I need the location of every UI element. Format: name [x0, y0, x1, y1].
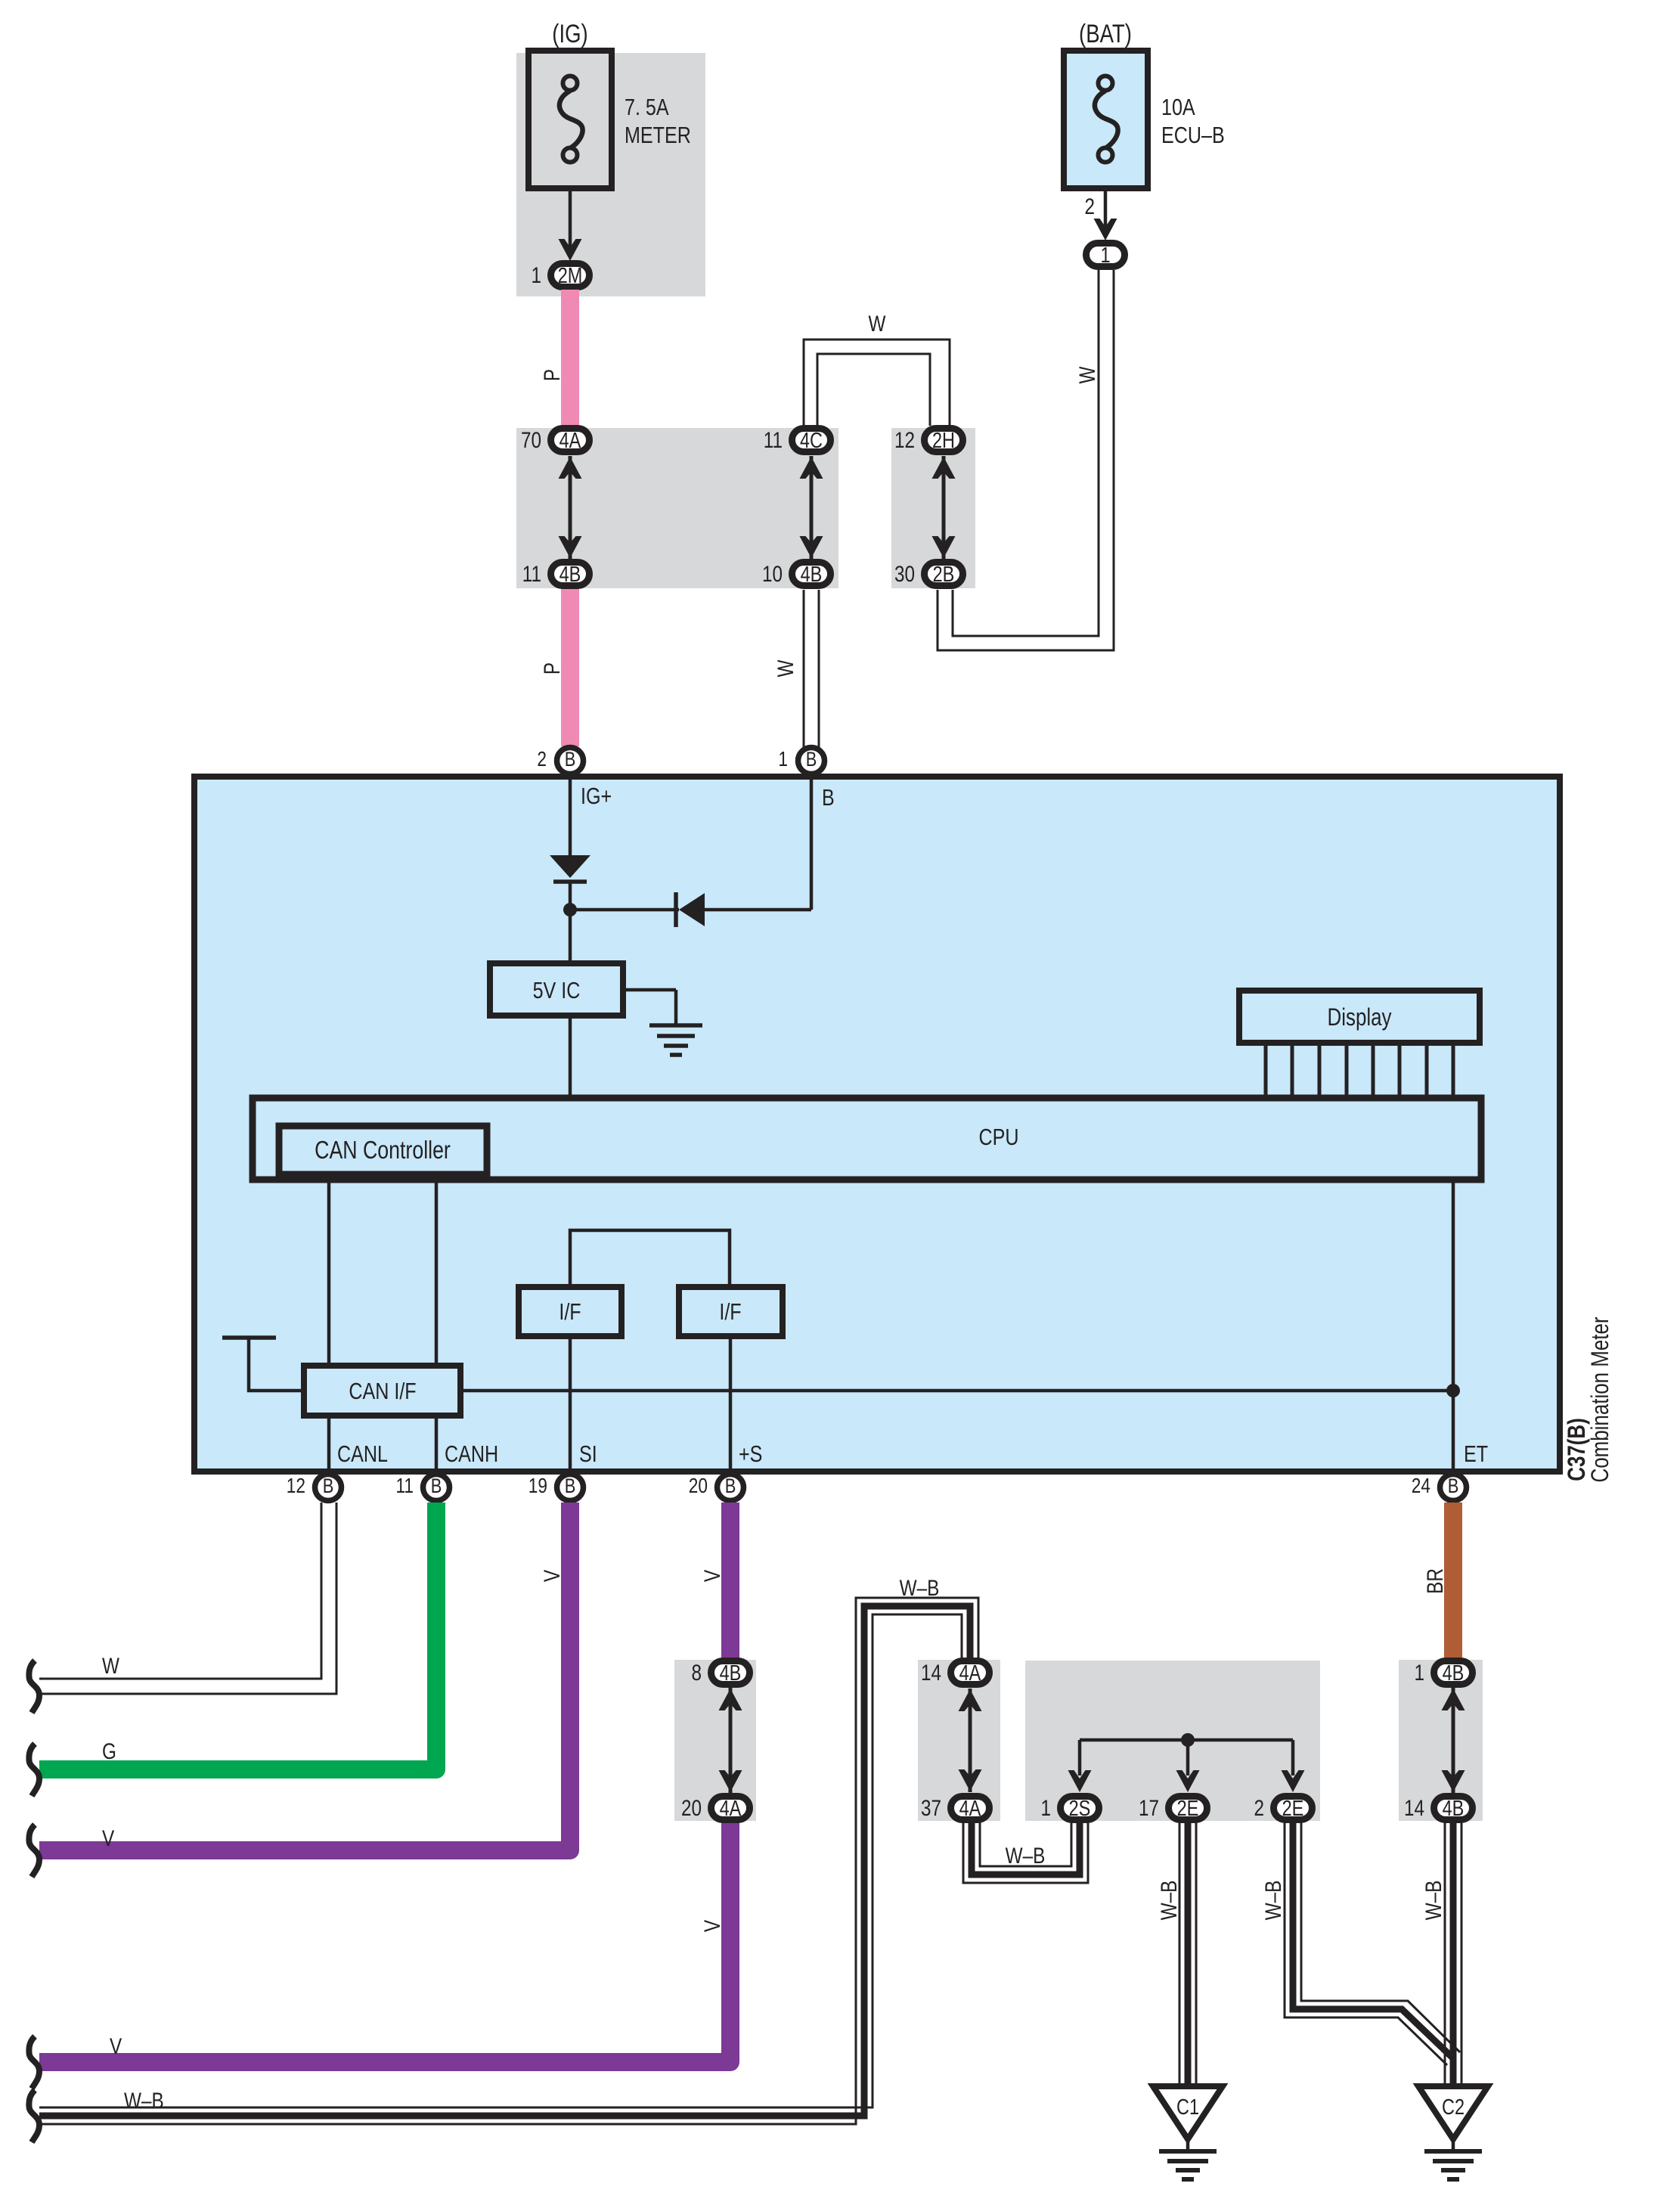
- svg-text:I/F: I/F: [559, 1298, 581, 1325]
- svg-text:W–B: W–B: [1157, 1881, 1182, 1921]
- svg-text:CPU: CPU: [979, 1124, 1019, 1150]
- svg-text:V: V: [700, 1920, 725, 1932]
- svg-text:2B: 2B: [933, 563, 955, 587]
- svg-text:4B: 4B: [801, 563, 823, 587]
- svg-text:14: 14: [1404, 1796, 1424, 1821]
- svg-text:4B: 4B: [720, 1661, 742, 1686]
- svg-text:2E: 2E: [1177, 1797, 1199, 1821]
- svg-text:(IG): (IG): [552, 20, 587, 48]
- svg-text:5V IC: 5V IC: [533, 977, 581, 1003]
- svg-text:V: V: [540, 1570, 565, 1582]
- svg-text:SI: SI: [579, 1441, 597, 1467]
- svg-text:I/F: I/F: [719, 1298, 741, 1325]
- svg-text:4B: 4B: [559, 563, 581, 587]
- svg-text:B: B: [822, 784, 835, 811]
- svg-text:4C: 4C: [800, 429, 823, 453]
- svg-text:B: B: [565, 1475, 576, 1497]
- svg-text:4A: 4A: [959, 1797, 981, 1821]
- svg-text:W: W: [1075, 366, 1100, 383]
- svg-text:4B: 4B: [1443, 1661, 1465, 1686]
- svg-text:BR: BR: [1423, 1568, 1448, 1594]
- svg-text:B: B: [1448, 1475, 1459, 1497]
- svg-text:20: 20: [681, 1796, 702, 1821]
- svg-text:19: 19: [528, 1474, 547, 1497]
- svg-text:7. 5A: 7. 5A: [625, 94, 669, 120]
- svg-text:ET: ET: [1464, 1441, 1488, 1467]
- svg-text:10: 10: [762, 562, 783, 587]
- svg-text:Display: Display: [1328, 1003, 1392, 1031]
- svg-text:B: B: [323, 1475, 334, 1497]
- svg-text:CAN I/F: CAN I/F: [349, 1378, 416, 1404]
- svg-text:1: 1: [1041, 1796, 1052, 1821]
- svg-text:37: 37: [921, 1796, 941, 1821]
- svg-text:METER: METER: [625, 122, 691, 148]
- svg-text:W–B: W–B: [124, 2089, 164, 2114]
- svg-text:2S: 2S: [1069, 1797, 1091, 1821]
- svg-text:1: 1: [532, 263, 542, 288]
- svg-text:C2: C2: [1442, 2095, 1465, 2120]
- svg-text:8: 8: [692, 1661, 702, 1686]
- svg-text:11: 11: [522, 562, 541, 587]
- svg-text:V: V: [110, 2034, 122, 2059]
- svg-text:CANL: CANL: [337, 1441, 388, 1467]
- svg-text:4A: 4A: [720, 1797, 742, 1821]
- svg-text:B: B: [725, 1475, 736, 1497]
- svg-text:2: 2: [1254, 1796, 1265, 1821]
- svg-text:20: 20: [689, 1474, 708, 1497]
- svg-text:1: 1: [778, 747, 788, 771]
- svg-text:14: 14: [921, 1661, 941, 1686]
- svg-text:W–B: W–B: [1261, 1881, 1286, 1921]
- svg-text:Combination Meter: Combination Meter: [1586, 1316, 1613, 1482]
- svg-text:12: 12: [894, 428, 915, 453]
- svg-text:2: 2: [537, 747, 547, 771]
- svg-text:P: P: [540, 369, 565, 381]
- svg-text:2H: 2H: [932, 429, 955, 453]
- svg-text:CANH: CANH: [445, 1441, 498, 1467]
- svg-text:30: 30: [894, 562, 915, 587]
- svg-text:ECU–B: ECU–B: [1161, 122, 1225, 148]
- svg-text:W: W: [102, 1654, 119, 1679]
- svg-text:+S: +S: [739, 1441, 762, 1467]
- svg-text:C1: C1: [1176, 2095, 1199, 2120]
- svg-text:10A: 10A: [1161, 94, 1195, 120]
- svg-text:70: 70: [521, 428, 541, 453]
- svg-text:CAN Controller: CAN Controller: [315, 1136, 451, 1164]
- svg-text:12: 12: [287, 1474, 305, 1497]
- svg-text:V: V: [102, 1826, 114, 1851]
- svg-text:W: W: [773, 659, 798, 677]
- svg-text:W–B: W–B: [1421, 1881, 1446, 1921]
- svg-text:W–B: W–B: [900, 1576, 940, 1601]
- svg-text:17: 17: [1139, 1796, 1159, 1821]
- svg-text:P: P: [540, 662, 565, 675]
- svg-text:11: 11: [396, 1474, 414, 1497]
- svg-text:2M: 2M: [558, 264, 583, 288]
- svg-text:2E: 2E: [1282, 1797, 1304, 1821]
- svg-text:B: B: [431, 1475, 442, 1497]
- svg-text:4A: 4A: [559, 429, 581, 453]
- svg-text:IG+: IG+: [581, 783, 612, 809]
- svg-text:W–B: W–B: [1006, 1844, 1046, 1869]
- svg-text:V: V: [700, 1570, 725, 1582]
- svg-text:W: W: [869, 312, 886, 336]
- svg-text:4A: 4A: [959, 1661, 981, 1686]
- svg-text:24: 24: [1412, 1474, 1430, 1497]
- svg-text:B: B: [806, 748, 817, 771]
- svg-text:(BAT): (BAT): [1079, 20, 1132, 48]
- svg-text:4B: 4B: [1443, 1797, 1465, 1821]
- svg-text:1: 1: [1100, 243, 1110, 268]
- svg-text:2: 2: [1085, 194, 1096, 219]
- svg-text:1: 1: [1415, 1661, 1425, 1686]
- svg-text:B: B: [565, 748, 576, 771]
- svg-text:G: G: [102, 1739, 116, 1764]
- svg-text:11: 11: [764, 428, 783, 453]
